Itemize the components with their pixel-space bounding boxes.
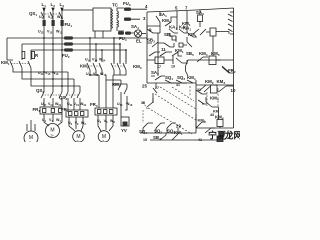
svg-text:KM4: KM4 xyxy=(199,51,208,57)
svg-text:43: 43 xyxy=(210,113,214,117)
svg-text:KM1: KM1 xyxy=(188,32,197,38)
svg-text:5: 5 xyxy=(175,6,178,11)
svg-text:11: 11 xyxy=(161,47,166,52)
svg-text:KM1: KM1 xyxy=(174,130,183,136)
svg-text:FU4: FU4 xyxy=(119,36,127,42)
svg-text:7: 7 xyxy=(185,6,188,11)
svg-text:U16: U16 xyxy=(117,102,123,107)
svg-text:L2: L2 xyxy=(51,2,56,8)
svg-text:10: 10 xyxy=(231,88,236,93)
svg-text:QS1: QS1 xyxy=(29,11,37,17)
svg-text:L1: L1 xyxy=(42,2,47,8)
svg-text:W31: W31 xyxy=(80,102,87,107)
svg-text:3: 3 xyxy=(143,16,146,21)
svg-text:FU2: FU2 xyxy=(62,53,70,59)
svg-text:3~: 3~ xyxy=(76,140,80,143)
svg-text:W14: W14 xyxy=(99,58,106,63)
svg-text:V12: V12 xyxy=(47,30,53,35)
svg-text:V2: V2 xyxy=(75,121,79,126)
svg-text:SB1: SB1 xyxy=(164,32,172,38)
svg-text:V14: V14 xyxy=(92,58,98,63)
svg-text:25: 25 xyxy=(142,84,147,89)
svg-text:KM4: KM4 xyxy=(210,96,219,102)
svg-text:QS2: QS2 xyxy=(36,88,44,94)
svg-text:3~: 3~ xyxy=(102,140,106,143)
svg-text:27: 27 xyxy=(155,86,159,90)
svg-text:29: 29 xyxy=(176,124,181,129)
svg-text:FU1: FU1 xyxy=(65,22,73,28)
svg-text:17: 17 xyxy=(157,65,161,69)
svg-text:KM3: KM3 xyxy=(133,64,142,70)
svg-text:W15: W15 xyxy=(100,72,107,77)
svg-text:4: 4 xyxy=(145,4,148,9)
svg-text:KM1: KM1 xyxy=(162,18,171,24)
svg-text:KM3: KM3 xyxy=(217,79,226,85)
svg-text:FR1: FR1 xyxy=(33,107,41,113)
svg-text:KM4: KM4 xyxy=(187,75,196,81)
svg-text:W11: W11 xyxy=(57,15,64,20)
svg-text:SQ2: SQ2 xyxy=(154,129,162,135)
svg-text:YV: YV xyxy=(121,128,127,133)
svg-text:SQ4: SQ4 xyxy=(139,129,147,135)
svg-text:3~: 3~ xyxy=(50,134,54,138)
svg-text:3~: 3~ xyxy=(29,141,33,142)
svg-text:FR3: FR3 xyxy=(90,102,98,108)
svg-text:KM2: KM2 xyxy=(205,79,214,85)
svg-text:41: 41 xyxy=(198,138,202,142)
svg-text:R: R xyxy=(35,53,39,58)
svg-text:W1: W1 xyxy=(56,118,61,123)
svg-text:15: 15 xyxy=(143,138,147,142)
svg-text:L3: L3 xyxy=(60,2,65,8)
svg-text:31: 31 xyxy=(176,83,180,87)
svg-text:V31: V31 xyxy=(74,102,80,107)
svg-text:TC: TC xyxy=(112,3,119,8)
svg-text:SQ1: SQ1 xyxy=(165,75,173,81)
svg-text:SA4: SA4 xyxy=(131,24,139,30)
svg-text:U12: U12 xyxy=(38,30,44,35)
svg-text:U15: U15 xyxy=(86,72,92,77)
svg-text:KM1: KM1 xyxy=(1,60,10,66)
svg-text:V3: V3 xyxy=(104,119,108,124)
svg-text:SB5: SB5 xyxy=(186,51,194,57)
svg-text:SQ3: SQ3 xyxy=(177,75,185,81)
svg-text:35: 35 xyxy=(141,101,145,105)
svg-text:32: 32 xyxy=(197,88,201,92)
svg-text:FU3: FU3 xyxy=(123,1,131,7)
svg-text:龙网: 龙网 xyxy=(224,130,241,141)
svg-text:U1: U1 xyxy=(42,118,47,123)
svg-text:W2: W2 xyxy=(81,121,86,126)
svg-text:EL: EL xyxy=(136,39,142,44)
svg-text:W3: W3 xyxy=(110,119,115,124)
svg-text:19: 19 xyxy=(171,65,175,69)
